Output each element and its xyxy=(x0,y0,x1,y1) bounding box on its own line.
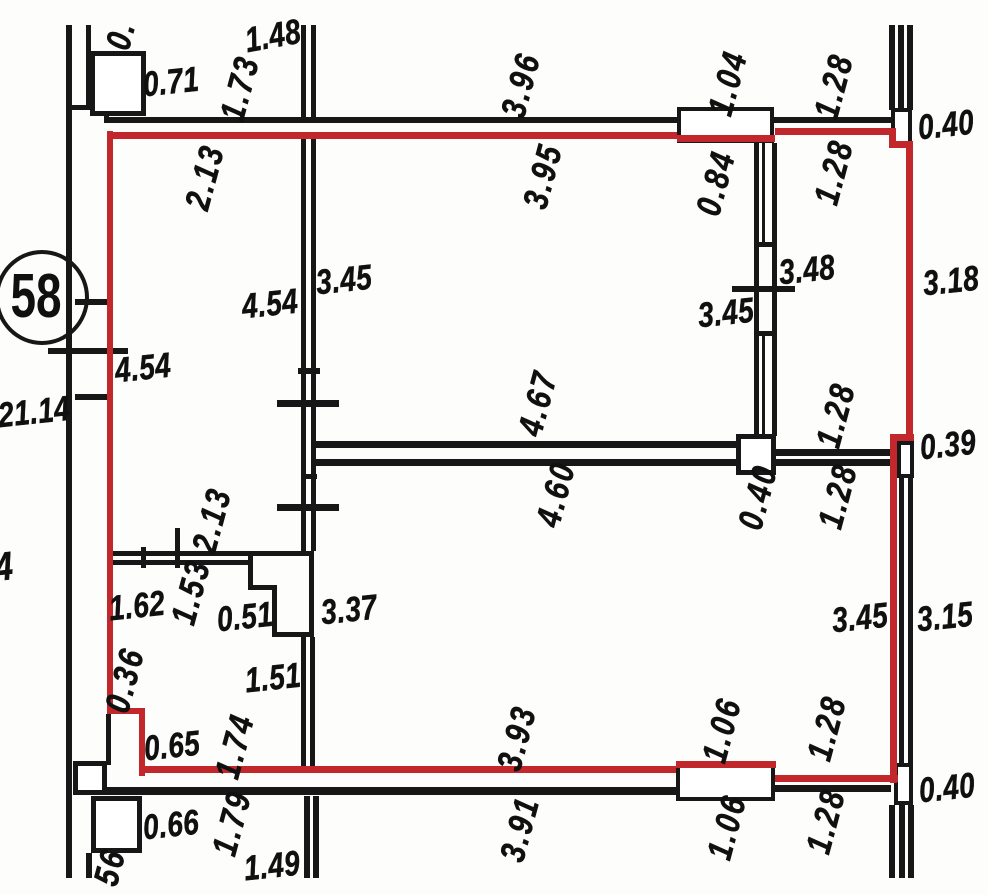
shaft right line xyxy=(309,556,314,637)
dimension 1.48 xyxy=(242,14,303,58)
red boundary bottom segment across window xyxy=(676,761,776,768)
wall top middle vertical line 2 xyxy=(311,25,316,117)
window rect bottom xyxy=(676,762,775,801)
red boundary top segment right xyxy=(775,128,891,135)
dimension 1.06 lower xyxy=(702,791,753,864)
dimension 1.28 right 0.39 upper xyxy=(811,379,862,452)
wall top right vertical line 1 xyxy=(889,25,895,110)
window rect top xyxy=(677,107,774,143)
dimension 1.28 bottom upper xyxy=(802,692,853,765)
wall right middle section line 1 xyxy=(899,478,904,763)
dimension 1.62 xyxy=(107,586,166,627)
box top-left pilaster xyxy=(90,51,146,116)
wall middle vertical below shaft line 2 xyxy=(310,637,315,769)
dimension 1.53 xyxy=(166,556,217,629)
dimension 4.54 left wall xyxy=(113,348,172,389)
dimension 4.60 xyxy=(531,458,582,531)
red boundary step horizontal xyxy=(107,708,145,714)
tick circle to wall xyxy=(75,299,110,305)
red boundary top segment left xyxy=(107,132,677,139)
red boundary top segment across window xyxy=(677,135,775,142)
wall bottom middle vertical line 1 xyxy=(304,796,310,878)
dimension 0.65 xyxy=(142,726,201,767)
dimension 0.71 xyxy=(141,62,200,103)
dimension 4 partial left xyxy=(0,546,15,588)
dimension 0.84 xyxy=(691,147,742,220)
red boundary jog right at 0.40 box xyxy=(889,141,913,148)
tick 21.14 left xyxy=(75,394,110,400)
wall short vertical at top wall start xyxy=(104,105,109,123)
wall left outer line xyxy=(66,25,72,878)
dimension 1.79 xyxy=(207,787,258,860)
dimension 1.04 xyxy=(703,47,754,120)
wall bottom-left room top line 2 xyxy=(112,560,250,565)
wall cap above opening xyxy=(754,242,777,247)
wall bottom horizontal left segment xyxy=(105,787,676,795)
box bottom-left wall junction xyxy=(73,761,107,795)
dimension 3.18 xyxy=(921,261,980,302)
dimension 3.48 xyxy=(777,250,836,291)
dimension 2.13 lower xyxy=(187,484,238,557)
wall cap below opening xyxy=(754,331,777,336)
dimension 0.40 rotated below middle box xyxy=(733,461,784,534)
wall mid-right vertical right line xyxy=(772,143,777,436)
dimension 3.45 middle room xyxy=(314,260,373,301)
red boundary bottom segment right xyxy=(775,775,898,782)
red boundary step vertical xyxy=(139,708,145,776)
dimension 0.51 xyxy=(215,597,274,638)
shaft step bottom xyxy=(272,632,314,637)
dimension 3.15 xyxy=(915,597,974,638)
wall mid-right middle thin line lower xyxy=(762,336,765,434)
tick middle wall small lower xyxy=(302,474,317,479)
dimension 0.40 top right xyxy=(916,105,975,146)
wall mid-right vertical left line xyxy=(754,143,759,436)
wall top right vertical line 2 xyxy=(898,25,904,110)
wall top middle vertical line 1 xyxy=(301,25,306,117)
circle apartment number 58 xyxy=(0,250,89,345)
wall bottom middle vertical line 2 xyxy=(313,796,319,878)
wall short vertical above bottom-left box xyxy=(106,714,111,765)
dimension 1.28 right 0.39 lower xyxy=(813,460,864,533)
dimension 0. partial top xyxy=(100,17,141,54)
wall bottom right vertical line 3 xyxy=(908,805,914,878)
dimension 1.73 xyxy=(215,52,266,125)
apartment number 58 xyxy=(10,266,61,328)
tick 1.62 vertical xyxy=(141,547,146,568)
dimension 3.93 xyxy=(492,702,543,775)
wall bottom-left room top line 1 xyxy=(110,551,314,556)
dimension 2.13 upper xyxy=(180,141,231,214)
dimension 3.45 mid-right xyxy=(696,293,755,334)
dimension 3.91 xyxy=(495,793,546,866)
dimension 4.54 middle room xyxy=(240,284,299,325)
wall top horizontal xyxy=(104,117,891,123)
wall left inner line top xyxy=(86,25,91,107)
dimension 1.28 top right upper xyxy=(809,50,860,123)
dimension 0.66 xyxy=(141,805,200,846)
tick 4.54 left upper xyxy=(48,348,128,354)
dimension 3.45 right lower xyxy=(830,598,889,639)
dimension 1.74 xyxy=(210,710,261,783)
dimension 0.40 bottom right xyxy=(917,768,976,809)
dimension 1.28 top right lower xyxy=(809,136,860,209)
wall interior horizontal right line 2 xyxy=(775,459,891,466)
wall left inner line bottom xyxy=(86,853,92,878)
dimension 4.67 xyxy=(513,367,564,440)
dimension 3.95 xyxy=(518,140,569,213)
box 0.39 right junction xyxy=(897,441,914,478)
dimension 0.39 xyxy=(918,425,977,466)
wall top right vertical line 3 xyxy=(907,25,913,110)
box 0.40 bottom right junction xyxy=(894,763,913,805)
wall right middle section line 2 xyxy=(908,478,913,763)
dimension 1.49 xyxy=(242,846,301,887)
wall bottom right vertical line 2 xyxy=(899,805,905,878)
wall interior horizontal right line 1 xyxy=(775,449,891,456)
dimension 0.36 xyxy=(100,644,151,717)
wall ledge under top-left box xyxy=(69,105,146,110)
dimension 21.14 xyxy=(0,391,72,433)
box 0.40 top right junction xyxy=(891,108,912,146)
wall bottom horizontal right segment xyxy=(775,785,891,792)
wall middle vertical below shaft line 1 xyxy=(301,637,306,769)
tick dimension 3.48/3.45 xyxy=(732,286,795,292)
wall middle vertical left line xyxy=(301,139,306,551)
dimension 56 partial bottom xyxy=(88,845,131,890)
red boundary right vertical upper xyxy=(906,141,913,441)
red boundary right vertical lower xyxy=(890,434,897,783)
wall bottom right vertical line 1 xyxy=(889,805,895,878)
tick middle wall small xyxy=(298,368,320,374)
wall interior horizontal line 1 xyxy=(313,441,737,448)
wall mid-right middle thin line upper xyxy=(762,143,765,242)
dimension 1.51 xyxy=(243,658,302,699)
dimension 3.96 xyxy=(496,49,547,122)
red boundary jog down at 0.40 box xyxy=(889,128,896,148)
box 0.40 middle junction xyxy=(736,434,776,475)
dimension 1.28 bottom lower xyxy=(801,785,852,858)
dimension 3.37 xyxy=(319,590,378,631)
tick 2.13/1.53 vertical xyxy=(175,528,180,568)
red boundary jog at 0.39 box xyxy=(890,434,914,441)
wall middle vertical right line xyxy=(311,139,316,551)
tick middle wall 4.67 xyxy=(277,400,339,407)
red boundary left vertical xyxy=(107,131,113,714)
red boundary bottom segment left xyxy=(139,766,676,773)
shaft step vertical 1 xyxy=(248,556,253,590)
shaft step horizontal 1 xyxy=(248,585,277,590)
wall interior horizontal line 2 xyxy=(316,459,737,466)
shaft step vertical 2 xyxy=(272,585,277,637)
dimension 1.06 upper xyxy=(697,694,748,767)
tick middle wall 4.60 xyxy=(277,504,339,511)
box bottom-left below wall xyxy=(91,796,142,853)
